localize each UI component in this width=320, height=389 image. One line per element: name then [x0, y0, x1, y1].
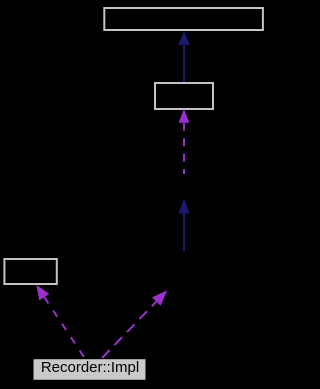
node second class box — [155, 83, 213, 109]
node Recorder::Impl (current class, grey filled) — [33, 359, 146, 381]
wire usage arrow node A to box2 (dashed purple) — [179, 109, 190, 174]
node left class box — [4, 259, 56, 284]
wire usage arrow Recorder::Impl to node B (dashed purple) — [102, 290, 167, 358]
wire inheritance arrow node B to node A (solid blue) — [178, 199, 189, 251]
wire usage arrow Recorder::Impl to left box (dashed purple) — [36, 285, 84, 358]
node top class box — [104, 8, 263, 30]
wire inheritance arrow box2 to top box (solid blue) — [178, 31, 190, 82]
svg-text:Recorder::Impl: Recorder::Impl — [41, 359, 139, 376]
